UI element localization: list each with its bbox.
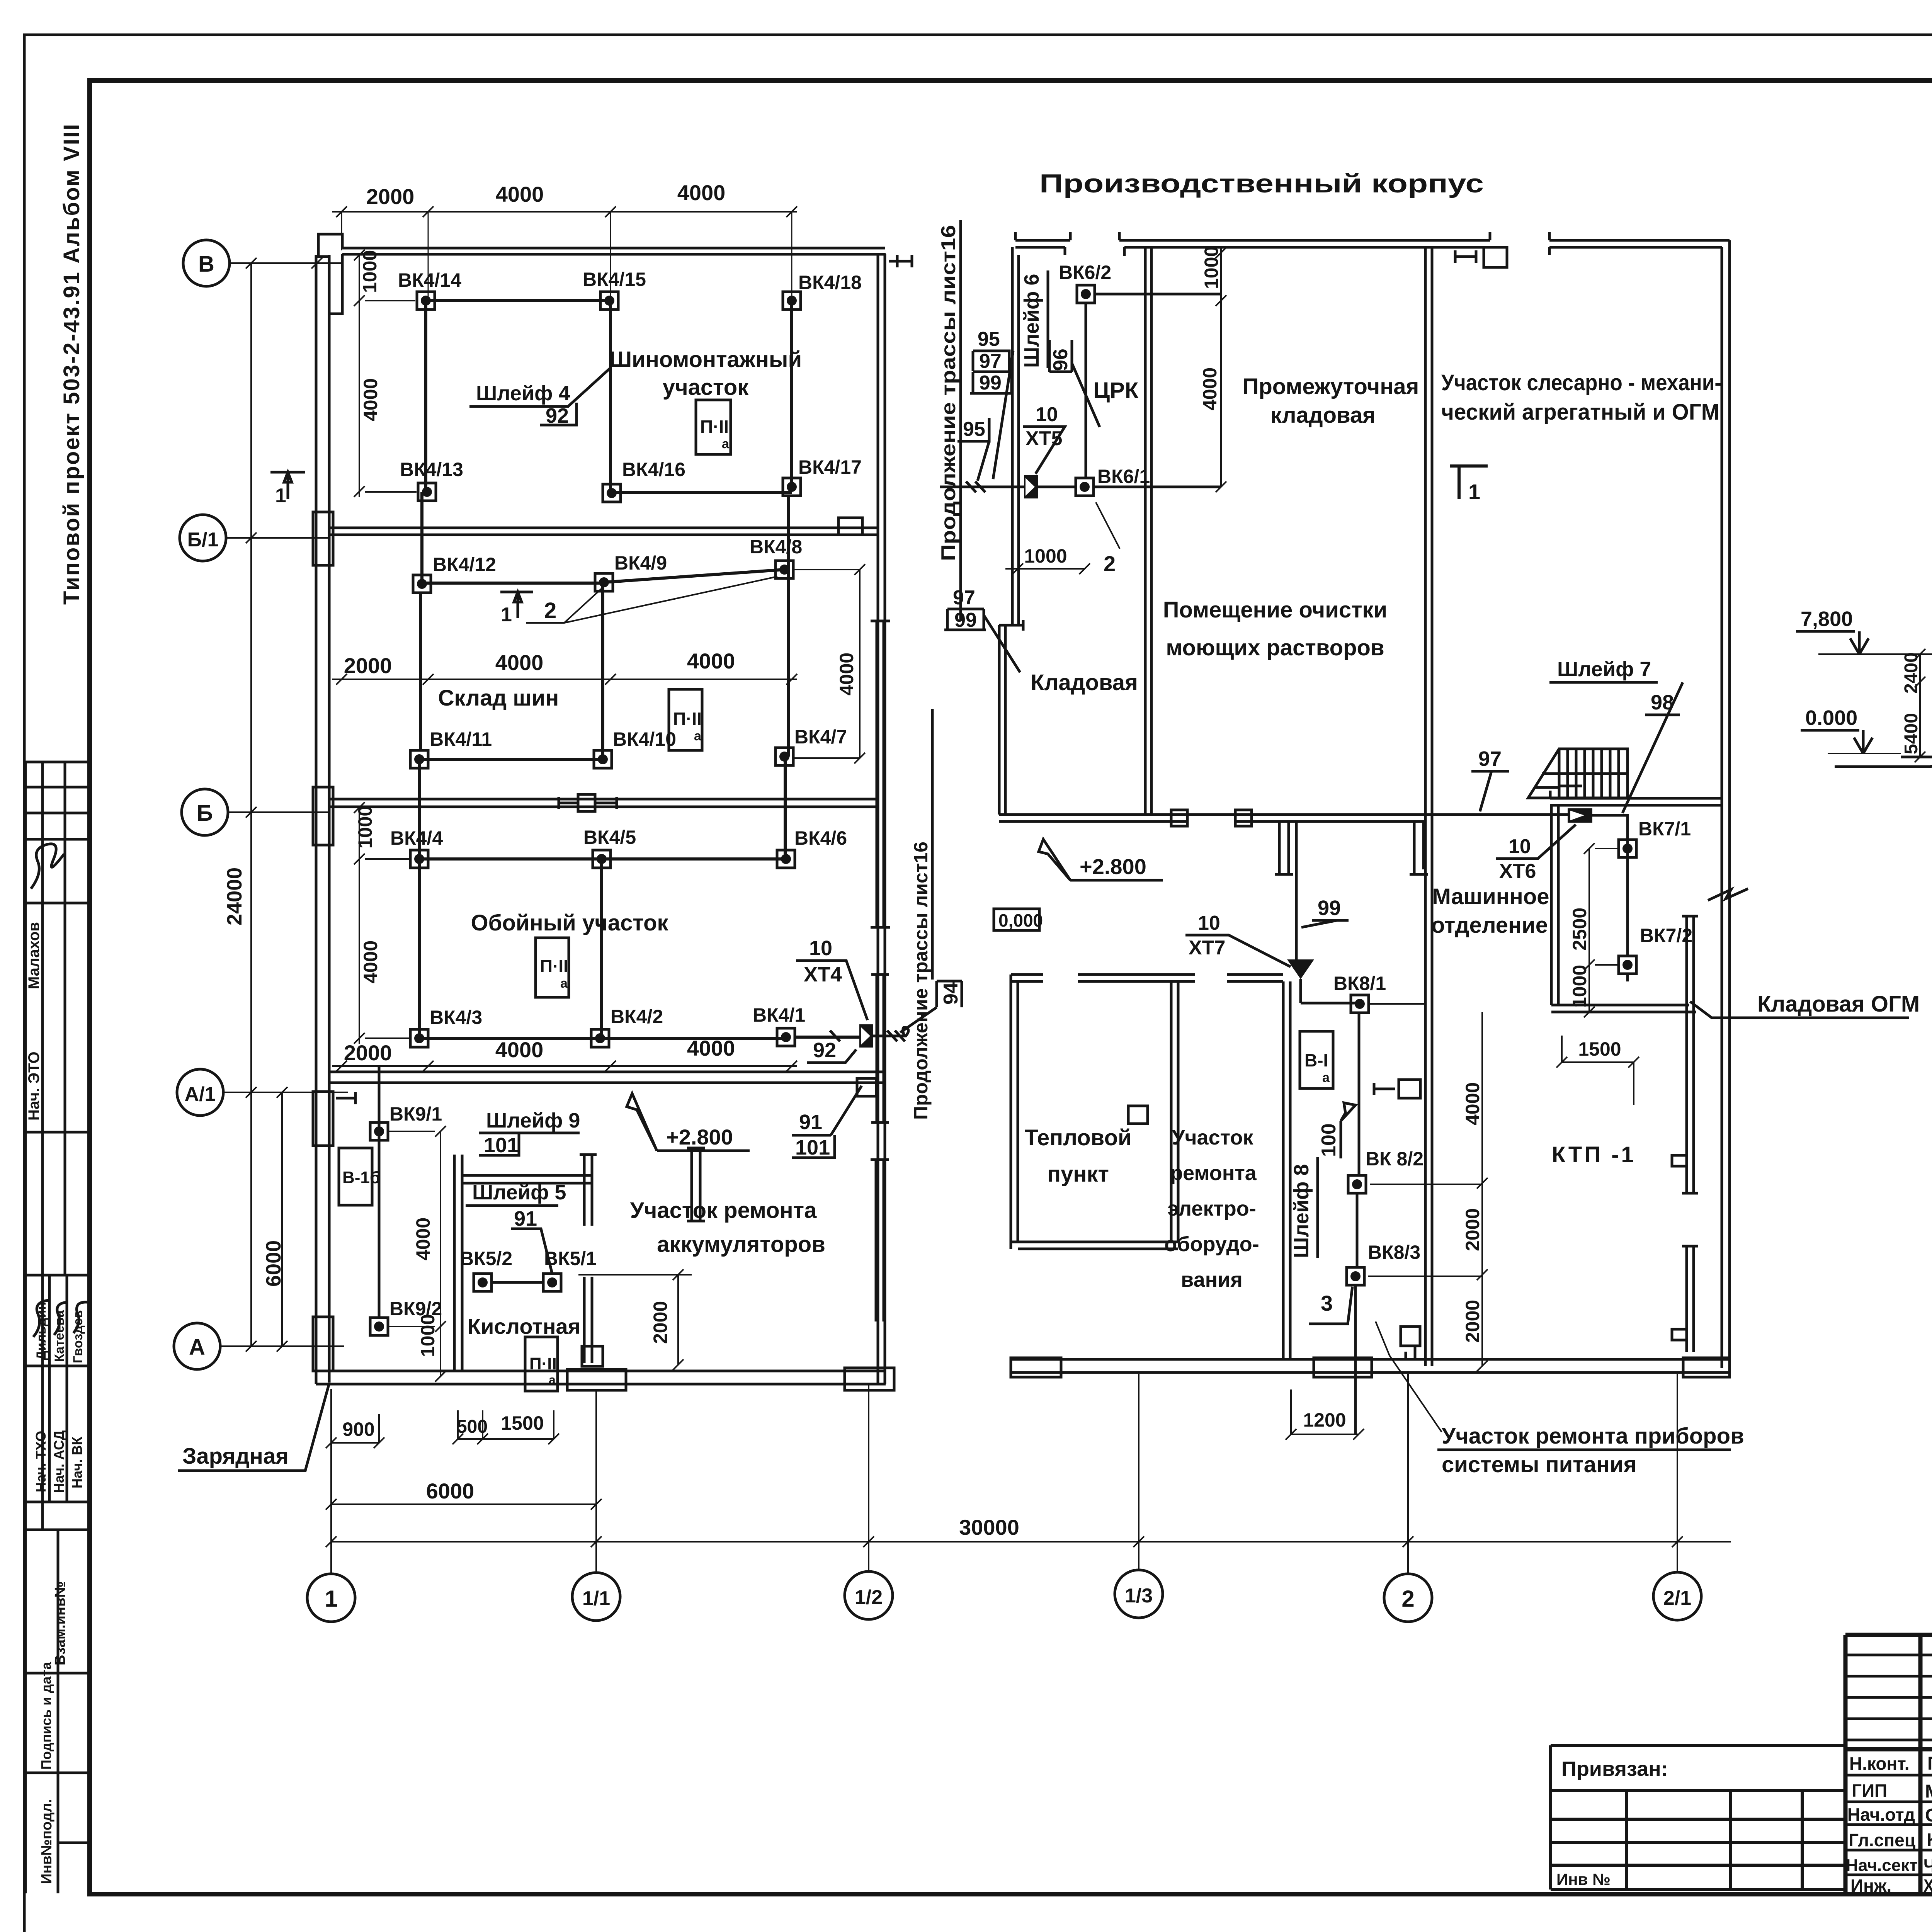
bottom wall middle building: [1011, 1359, 1730, 1372]
break mark right wall: [1708, 889, 1748, 900]
svg-text:3: 3: [1321, 1291, 1333, 1315]
svg-text:П·II: П·II: [540, 956, 568, 976]
svg-text:101: 101: [484, 1134, 519, 1157]
detector ВК4/6: [777, 850, 795, 868]
svg-text:4000: 4000: [1199, 367, 1221, 410]
wire Шлейф 5: [492, 1281, 543, 1284]
svg-text:системы питания: системы питания: [1442, 1452, 1637, 1477]
wall pilaster between buildings lower: [871, 1160, 889, 1321]
connector ХТ7: [1287, 959, 1314, 979]
dim line 6000 bottom: [326, 1499, 602, 1510]
svg-text:а: а: [560, 976, 568, 991]
trunk wire to ХТ6: [1145, 813, 1568, 816]
svg-text:Участок: Участок: [1172, 1126, 1254, 1149]
svg-text:Участок слесарно - механи-: Участок слесарно - механи-: [1441, 370, 1721, 395]
door mark top wall: [1484, 247, 1507, 267]
bottom wall pilasters: [1011, 1358, 1061, 1377]
svg-text:ВК8/3: ВК8/3: [1368, 1242, 1420, 1263]
svg-text:кладовая: кладовая: [1270, 403, 1376, 428]
svg-text:92: 92: [813, 1039, 836, 1062]
svg-text:1: 1: [275, 485, 286, 507]
connector ХТ5: [1024, 475, 1038, 498]
svg-text:0,000: 0,000: [998, 910, 1043, 930]
svg-text:ВК4/9: ВК4/9: [614, 552, 667, 574]
detector ВК9/2: [370, 1318, 388, 1335]
svg-text:Кладовая ОГМ: Кладовая ОГМ: [1757, 992, 1920, 1017]
svg-text:99: 99: [1318, 896, 1341, 920]
svg-text:2/1: 2/1: [1663, 1587, 1691, 1609]
svg-text:94: 94: [940, 982, 962, 1005]
detector ВК7/1: [1619, 840, 1636, 857]
svg-text:91: 91: [799, 1111, 822, 1134]
svg-text:100: 100: [1318, 1123, 1340, 1157]
svg-text:моющих растворов: моющих растворов: [1166, 635, 1384, 660]
wall Кладовая left: [999, 620, 1023, 815]
svg-text:Шлейф 7: Шлейф 7: [1557, 658, 1651, 681]
svg-text:ВК9/1: ВК9/1: [389, 1103, 442, 1125]
svg-text:4000: 4000: [360, 940, 381, 983]
pilaster bottom 1: [567, 1369, 626, 1390]
svg-text:Продолжение трассы лист16: Продолжение трассы лист16: [937, 225, 960, 561]
dim row above Склад шин: [332, 679, 797, 680]
svg-text:Шлейф 6: Шлейф 6: [1020, 274, 1043, 368]
svg-text:2400: 2400: [1901, 652, 1922, 694]
wall bottom of storerooms: [999, 815, 1425, 821]
svg-text:пункт: пункт: [1047, 1162, 1109, 1187]
svg-text:ХТ4: ХТ4: [804, 963, 842, 986]
svg-text:П·II: П·II: [673, 709, 702, 729]
svg-text:Зарядная: Зарядная: [182, 1444, 289, 1469]
svg-text:Промежуточная: Промежуточная: [1243, 374, 1419, 399]
svg-text:Нач. ВК: Нач. ВК: [69, 1436, 85, 1488]
detector ВК6/1: [1076, 478, 1094, 496]
svg-text:П·II: П·II: [529, 1354, 557, 1373]
svg-text:ремонта: ремонта: [1170, 1162, 1257, 1185]
svg-text:500: 500: [457, 1417, 488, 1437]
section dim 2400/5400/3600: [1915, 649, 1925, 762]
axis circle 2: [1384, 1574, 1432, 1622]
door opening Б wall: [578, 794, 595, 811]
pilaster Б/1: [313, 512, 333, 565]
axis circle Б: [182, 789, 228, 835]
svg-text:Нач. ТХО: Нач. ТХО: [33, 1431, 49, 1492]
машинное отделение left wall: [1551, 805, 1558, 1005]
door block wall1: [838, 518, 862, 535]
stairs: [1528, 749, 1628, 798]
svg-text:ческий агрегатный и ОГМ: ческий агрегатный и ОГМ: [1441, 400, 1719, 425]
detector ВК4/15: [600, 292, 618, 310]
svg-text:Н.конт.: Н.конт.: [1849, 1753, 1910, 1774]
box В-I КТП: [1300, 1031, 1333, 1088]
кладовая ОГМ partition notch: [1672, 1155, 1687, 1166]
pilaster А/1: [313, 1092, 333, 1146]
detector ВК4/17: [783, 478, 801, 496]
wall right of building: [1722, 240, 1730, 1368]
pilaster below wall 2: [1410, 821, 1428, 874]
svg-text:1: 1: [1468, 480, 1480, 504]
svg-text:99: 99: [979, 372, 1002, 394]
svg-text:0.000: 0.000: [1805, 706, 1857, 730]
axis circle 1: [307, 1574, 355, 1622]
axis circle В: [183, 240, 230, 286]
svg-text:Хаишбашева: Хаишбашева: [1923, 1876, 1932, 1896]
svg-text:Участок ремонта: Участок ремонта: [630, 1198, 817, 1223]
svg-text:вания: вания: [1181, 1268, 1243, 1291]
svg-text:отделение: отделение: [1431, 913, 1548, 938]
svg-text:1000: 1000: [1201, 246, 1222, 289]
svg-text:Склад шин: Склад шин: [438, 685, 559, 711]
svg-text:2000: 2000: [344, 653, 392, 678]
dim row above А/1: [332, 1065, 797, 1067]
dim 1000 ЦРК bottom: [1005, 556, 1090, 574]
svg-text:ХТ7: ХТ7: [1189, 937, 1225, 959]
svg-text:2000: 2000: [650, 1301, 671, 1344]
wall Б axis internal: [329, 799, 878, 807]
partition Зарядная vertical: [454, 1155, 462, 1371]
vert dim 2000 Кислотная: [578, 1269, 692, 1370]
svg-text:аккумуляторов: аккумуляторов: [657, 1232, 825, 1257]
svg-text:ВК9/2: ВК9/2: [389, 1298, 442, 1320]
pilaster А: [313, 1317, 333, 1371]
svg-text:А: А: [189, 1335, 205, 1360]
top wall segment 1: [1015, 232, 1070, 255]
svg-text:Производственный корпус: Производственный корпус: [1039, 169, 1484, 198]
svg-text:5400: 5400: [1901, 713, 1922, 754]
svg-text:2000: 2000: [344, 1041, 392, 1065]
тепловой пункт walls: [1011, 975, 1283, 981]
svg-text:Нач. ЭТО: Нач. ЭТО: [26, 1051, 43, 1121]
section mark 1 upper: [270, 472, 305, 499]
svg-text:1500: 1500: [501, 1412, 544, 1434]
svg-text:4000: 4000: [496, 182, 544, 206]
svg-text:4000: 4000: [836, 653, 857, 696]
corridor pilaster column mid: [871, 621, 890, 927]
svg-text:ВК4/2: ВК4/2: [611, 1006, 663, 1027]
svg-text:Гецко: Гецко: [1927, 1753, 1932, 1774]
svg-text:оборудо-: оборудо-: [1164, 1233, 1259, 1256]
участок ремонта эл. right wall: [1283, 981, 1290, 1359]
vertical continuation line lower: [931, 709, 934, 980]
svg-text:ВК5/2: ВК5/2: [460, 1248, 512, 1269]
svg-text:электро-: электро-: [1167, 1197, 1256, 1220]
svg-text:2000: 2000: [1462, 1208, 1483, 1251]
svg-text:а: а: [694, 729, 702, 743]
svg-text:2000: 2000: [1462, 1300, 1483, 1343]
svg-text:ВК4/11: ВК4/11: [430, 728, 492, 750]
svg-text:2: 2: [1104, 551, 1116, 576]
wall between Промежуточная and Участок слесарно: [1425, 247, 1432, 1366]
pilaster below wall 1: [1275, 821, 1293, 874]
svg-text:Инв№подл.: Инв№подл.: [39, 1799, 55, 1884]
svg-text:6000: 6000: [262, 1240, 285, 1287]
svg-text:1000: 1000: [1024, 545, 1067, 567]
svg-text:ВК4/17: ВК4/17: [798, 456, 862, 478]
svg-text:ВК4/12: ВК4/12: [433, 554, 496, 575]
axis circle А: [174, 1323, 220, 1369]
svg-text:Гл.спец: Гл.спец: [1849, 1830, 1915, 1850]
svg-text:Б: Б: [197, 801, 213, 826]
КТП door marks: [1399, 1080, 1420, 1098]
svg-text:4000: 4000: [360, 378, 381, 421]
section building: floor: [1901, 756, 1932, 759]
attachment table Привязан: [1551, 1745, 1845, 1889]
top wall segment 3: [1549, 232, 1730, 255]
detector ВК4/16: [603, 484, 621, 502]
wire ВК6: [1038, 294, 1221, 487]
wire down from trunk to ХТ7: [1296, 821, 1360, 1003]
svg-text:ВК4/13: ВК4/13: [400, 459, 463, 480]
partition Кислотная horizontal: [462, 1175, 592, 1183]
section mark 1 lower: [500, 592, 533, 618]
svg-text:91: 91: [514, 1207, 537, 1230]
svg-text:1: 1: [325, 1586, 337, 1612]
detector ВК4/3: [410, 1029, 428, 1047]
left dim line 6000: [277, 1087, 287, 1352]
category box П-II Склад: [669, 689, 702, 750]
svg-text:А/1: А/1: [185, 1083, 216, 1105]
svg-text:ВК6/1: ВК6/1: [1097, 466, 1150, 487]
dim 500 1500: [452, 1410, 559, 1444]
dim 2500/1000 Машинное: [1584, 843, 1619, 1017]
svg-text:10: 10: [1509, 835, 1531, 858]
svg-text:Взам.инв№: Взам.инв№: [52, 1581, 68, 1665]
кладовая ОГМ partition lower: [1682, 1246, 1698, 1352]
svg-text:2500: 2500: [1569, 908, 1590, 951]
svg-text:Продолжение трассы лист16: Продолжение трассы лист16: [910, 842, 932, 1120]
wall pilaster between buildings upper: [871, 975, 889, 1122]
svg-text:ВК4/18: ВК4/18: [798, 272, 862, 293]
wall end block А/1 right: [857, 1078, 876, 1096]
svg-text:1200: 1200: [1303, 1409, 1346, 1431]
svg-text:1000: 1000: [359, 250, 381, 293]
detector ВК5/2: [474, 1274, 492, 1291]
svg-text:1/3: 1/3: [1125, 1585, 1153, 1607]
svg-text:ВК4/10: ВК4/10: [613, 728, 676, 750]
svg-text:97: 97: [979, 350, 1002, 372]
wall А/1 internal: [329, 1072, 883, 1083]
svg-text:Привязан:: Привязан:: [1561, 1757, 1668, 1781]
detector ВК9/1: [370, 1122, 388, 1140]
svg-text:ВК4/3: ВК4/3: [430, 1007, 482, 1028]
svg-text:Шлейф 9: Шлейф 9: [486, 1109, 580, 1132]
svg-text:2000: 2000: [366, 184, 415, 209]
svg-text:2: 2: [544, 598, 556, 623]
wall top (В axis): [342, 248, 886, 254]
svg-text:Нач.отд: Нач.отд: [1847, 1804, 1915, 1825]
detector ВК4/11: [410, 750, 428, 768]
wall ЦРК left: [1012, 247, 1019, 626]
svg-text:10: 10: [809, 937, 832, 960]
svg-text:6000: 6000: [426, 1479, 474, 1503]
svg-text:92: 92: [546, 404, 569, 427]
svg-text:Малахов: Малахов: [26, 922, 43, 989]
wire Шлейф 7: [1592, 815, 1628, 981]
svg-text:4000: 4000: [495, 1037, 544, 1062]
ground line: [1835, 758, 1932, 767]
svg-text:ГИП: ГИП: [1852, 1781, 1887, 1801]
detector ВК8/1: [1351, 995, 1369, 1013]
svg-text:ВК4/5: ВК4/5: [583, 827, 636, 848]
wall bottom (А axis): [316, 1371, 886, 1384]
svg-text:П·II: П·II: [700, 417, 729, 437]
svg-text:ВК4/8: ВК4/8: [750, 536, 802, 558]
category box П-II upper: [696, 400, 731, 454]
wall top-left corner notch: [318, 234, 342, 363]
svg-text:Шлейф 4: Шлейф 4: [476, 382, 570, 405]
svg-text:+2.800: +2.800: [666, 1125, 733, 1149]
svg-text:В-1б: В-1б: [342, 1168, 380, 1187]
svg-text:Осовский: Осовский: [1925, 1805, 1932, 1826]
svg-text:Нач. АСД: Нач. АСД: [51, 1430, 67, 1493]
svg-text:ВК4/4: ВК4/4: [390, 827, 443, 849]
detector ВК4/5: [593, 850, 611, 868]
svg-text:а: а: [1322, 1070, 1330, 1085]
svg-text:95: 95: [978, 328, 1000, 350]
category box П-II Кислотная: [525, 1337, 558, 1391]
detector ВК4/7: [776, 748, 793, 765]
svg-text:4000: 4000: [687, 649, 735, 673]
svg-text:а: а: [549, 1373, 556, 1387]
svg-text:Б/1: Б/1: [187, 529, 219, 551]
svg-text:ВК 8/2: ВК 8/2: [1366, 1148, 1423, 1170]
detector ВК4/10: [594, 750, 612, 768]
title block frame: [1845, 1635, 1932, 1894]
thin ext lines to dim column: [1368, 1004, 1482, 1276]
svg-text:ВК7/1: ВК7/1: [1638, 818, 1691, 840]
svg-text:Типовой проект 503-2-43.91: Типовой проект 503-2-43.91 Альбом VIII: [59, 123, 84, 605]
svg-text:ХТ6: ХТ6: [1499, 860, 1536, 883]
vert dim 1000 top: [354, 250, 415, 306]
wall left outer: [316, 255, 329, 1384]
svg-text:ВК4/16: ВК4/16: [622, 459, 685, 480]
detector ВК4/13: [418, 483, 436, 501]
square mark on тепловой wall: [1128, 1106, 1148, 1124]
svg-text:Нач.сект: Нач.сект: [1846, 1856, 1918, 1875]
detector ВК4/4: [410, 850, 428, 868]
svg-text:ВК4/7: ВК4/7: [794, 726, 847, 748]
detector ВК4/2: [591, 1029, 609, 1047]
svg-text:10: 10: [1036, 403, 1058, 426]
detector ВК8/2: [1348, 1175, 1366, 1193]
svg-text:7,800: 7,800: [1801, 607, 1853, 631]
svg-text:В: В: [198, 252, 214, 277]
door jamb blocks storeroom wall: [1171, 810, 1187, 826]
door mark right top Н: [889, 255, 912, 267]
partition Кислотная right lower: [584, 1277, 592, 1363]
detector ВК4/18: [783, 292, 801, 310]
svg-text:4000: 4000: [677, 180, 726, 205]
svg-text:участок: участок: [663, 375, 749, 400]
svg-text:ЦРК: ЦРК: [1094, 378, 1139, 403]
wall between ЦРК and Промежуточная: [1145, 247, 1151, 815]
detector ВК4/14: [417, 292, 435, 310]
svg-text:ВК4/15: ВК4/15: [583, 269, 646, 290]
label 0,000: [994, 909, 1039, 930]
detector ВК4/9: [595, 573, 613, 591]
svg-text:97: 97: [1478, 747, 1502, 770]
square block near А/1 end: [857, 1078, 876, 1096]
svg-text:2: 2: [1401, 1586, 1414, 1612]
svg-text:ВК4/6: ВК4/6: [794, 827, 847, 849]
svg-text:Подпись и дата: Подпись и дата: [38, 1662, 54, 1770]
svg-text:24000: 24000: [223, 867, 246, 925]
detector ВК4/8: [776, 561, 793, 578]
partition Кислотная right upper: [580, 1155, 597, 1226]
svg-text:1500: 1500: [1578, 1038, 1621, 1060]
dim column 4000/2000/2000 КТП: [1477, 1012, 1488, 1371]
svg-text:ВК5/1: ВК5/1: [544, 1248, 597, 1269]
svg-text:а: а: [722, 437, 730, 451]
axis circle 1/1: [572, 1573, 620, 1621]
vert dim 4000 ВК4/8-4/7: [793, 564, 865, 764]
svg-text:900: 900: [342, 1418, 374, 1440]
svg-text:1000: 1000: [354, 806, 376, 849]
wall right (axis 1/2 side): [878, 254, 885, 1384]
vert dim 1000 Б: [354, 802, 410, 864]
axis circle 1/3: [1115, 1570, 1163, 1618]
svg-text:30000: 30000: [959, 1515, 1019, 1539]
svg-text:Шлейф 8: Шлейф 8: [1290, 1164, 1313, 1258]
wire trunk from ХТ4: [873, 1027, 908, 1036]
vert dim 4000 ВК9: [388, 1126, 446, 1332]
svg-text:1000: 1000: [417, 1314, 439, 1357]
wall under Шиномонтажный: [329, 528, 878, 535]
dim 1200: [1286, 1389, 1364, 1440]
svg-text:Участок ремонта приборов: Участок ремонта приборов: [1442, 1423, 1744, 1449]
svg-text:Меленчук: Меленчук: [1925, 1781, 1932, 1802]
door mark А/1 left Н: [336, 1092, 355, 1104]
svg-text:ВК8/1: ВК8/1: [1333, 973, 1386, 994]
svg-text:Инж.: Инж.: [1850, 1876, 1891, 1896]
svg-text:ВК4/1: ВК4/1: [753, 1004, 805, 1026]
partition акк. room left pieces: [687, 1148, 705, 1221]
axis circle 1/2: [845, 1571, 893, 1619]
svg-text:КТП -1: КТП -1: [1552, 1142, 1636, 1167]
svg-text:Климов: Климов: [1927, 1830, 1932, 1850]
svg-text:ВК7/2: ВК7/2: [1640, 925, 1692, 946]
svg-text:95: 95: [963, 418, 985, 440]
category box П-II Обойный: [536, 938, 569, 997]
wire row1: [419, 301, 859, 1038]
detector ВК7/2: [1619, 956, 1636, 974]
svg-text:1: 1: [501, 604, 512, 626]
dim 900: [326, 1414, 384, 1448]
svg-text:В-I: В-I: [1304, 1050, 1328, 1070]
pilaster bottom 2: [845, 1368, 894, 1390]
svg-text:ВК4/14: ВК4/14: [398, 269, 461, 291]
svg-text:10: 10: [1198, 912, 1220, 934]
dim 1000 vert right of ВК6/2: [1216, 247, 1226, 492]
svg-text:ВК6/2: ВК6/2: [1059, 262, 1111, 283]
svg-text:101: 101: [795, 1136, 830, 1159]
svg-text:99: 99: [954, 609, 977, 631]
vert dim 4000 Обойный: [354, 864, 410, 1044]
svg-text:Тепловой: Тепловой: [1024, 1125, 1131, 1150]
vert dim 1000 ВК9: [435, 1327, 446, 1382]
svg-text:Шиномонтажный: Шиномонтажный: [609, 347, 802, 372]
detector ВК4/1: [777, 1028, 795, 1046]
svg-text:1/1: 1/1: [582, 1587, 610, 1610]
svg-text:1000: 1000: [1569, 965, 1590, 1008]
svg-text:4000: 4000: [495, 650, 544, 675]
svg-text:Шлейф 5: Шлейф 5: [472, 1181, 566, 1204]
axis circle Б/1: [180, 515, 226, 561]
svg-text:96: 96: [1049, 349, 1072, 371]
partition block Кислотная bottom: [582, 1346, 603, 1366]
svg-text:Машинное: Машинное: [1432, 884, 1549, 909]
junction arrows on trunk: [940, 481, 1024, 492]
detector ВК4/12: [413, 575, 431, 593]
